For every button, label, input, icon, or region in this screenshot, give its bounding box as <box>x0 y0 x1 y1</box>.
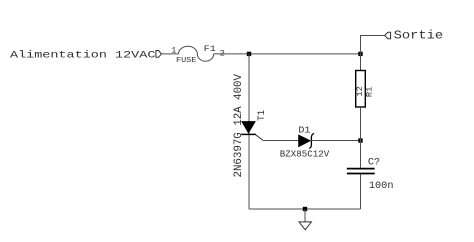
junction right rail / top rail <box>358 52 362 56</box>
wire: right rail top (junction to R1) <box>360 54 362 71</box>
output port <box>385 32 391 38</box>
thyristor T1 <box>241 122 263 141</box>
ground <box>299 209 311 230</box>
wire: cap to bottom rail <box>360 174 362 209</box>
input port <box>156 51 162 58</box>
wire: zener to right rail <box>312 140 361 142</box>
junction bottom rail / ground <box>303 207 307 211</box>
svg-text:2N6397G 12A 400V: 2N6397G 12A 400V <box>233 74 245 178</box>
svg-text:BZX85C12V: BZX85C12V <box>280 148 330 159</box>
svg-text:T1: T1 <box>256 110 268 121</box>
wire: gate to zener <box>263 140 299 142</box>
fuse F1 body <box>179 46 214 61</box>
svg-text:F1: F1 <box>204 45 216 54</box>
svg-text:Alimentation 12VAC: Alimentation 12VAC <box>10 50 155 62</box>
svg-text:Sortie: Sortie <box>394 28 444 42</box>
capacitor C? <box>347 169 375 174</box>
wire: bottom rail <box>249 208 361 210</box>
zener diode D1 <box>299 133 315 148</box>
svg-text:12: 12 <box>356 86 365 96</box>
svg-text:FUSE: FUSE <box>176 57 197 65</box>
wire: sortie stub <box>361 36 385 54</box>
junction right rail / gate branch <box>358 138 362 142</box>
junction at left rail / top rail <box>247 52 251 56</box>
wire: right rail (R1 to gate junction to cap) <box>360 107 362 168</box>
svg-text:D1: D1 <box>298 124 310 135</box>
svg-text:R1: R1 <box>365 87 374 97</box>
svg-text:1: 1 <box>171 45 176 55</box>
svg-text:100n: 100n <box>369 181 394 192</box>
wire: input stub <box>161 53 178 55</box>
wire: top rail <box>214 53 361 55</box>
wire: left rail <box>248 54 250 209</box>
resistor R1 <box>356 71 366 108</box>
svg-text:C?: C? <box>368 157 380 168</box>
